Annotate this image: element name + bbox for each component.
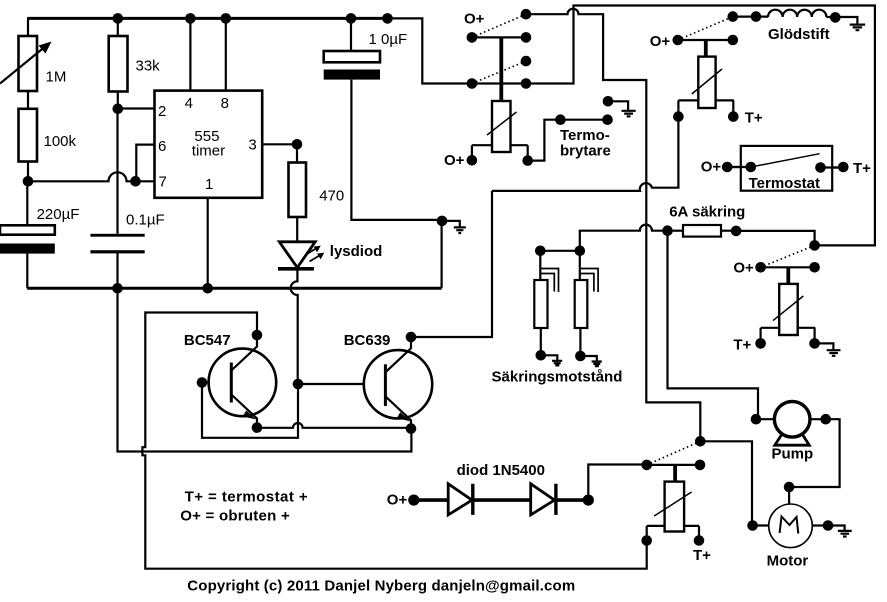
- svg-text:O+: O+: [733, 260, 754, 277]
- svg-text:Copyright (c) 2011 Danjel Nybe: Copyright (c) 2011 Danjel Nyberg danjeln…: [187, 578, 575, 595]
- svg-text:Motor: Motor: [767, 553, 809, 570]
- svg-text:T+: T+: [745, 110, 763, 127]
- svg-text:BC639: BC639: [344, 332, 391, 349]
- svg-text:O+: O+: [387, 492, 408, 509]
- svg-text:7: 7: [159, 173, 167, 190]
- svg-text:diod 1N5400: diod 1N5400: [457, 462, 545, 479]
- svg-text:1: 1: [205, 176, 213, 193]
- svg-text:1M: 1M: [46, 69, 67, 86]
- svg-text:timer: timer: [192, 143, 225, 160]
- svg-text:O+: O+: [444, 152, 465, 169]
- svg-text:T+: T+: [853, 160, 871, 177]
- svg-text:220µF: 220µF: [37, 206, 80, 223]
- svg-text:O+: O+: [701, 159, 722, 176]
- svg-text:O+: O+: [464, 11, 485, 28]
- svg-text:BC547: BC547: [184, 332, 231, 349]
- svg-text:470: 470: [319, 188, 344, 205]
- svg-text:2: 2: [158, 103, 166, 120]
- svg-text:Pump: Pump: [772, 446, 814, 463]
- svg-text:T+ = termostat +: T+ = termostat +: [185, 489, 309, 506]
- svg-text:8: 8: [221, 95, 229, 112]
- svg-text:1 0µF: 1 0µF: [369, 31, 408, 48]
- svg-text:0.1µF: 0.1µF: [126, 212, 165, 229]
- svg-text:brytare: brytare: [560, 142, 611, 159]
- svg-text:4: 4: [185, 95, 193, 112]
- svg-text:33k: 33k: [136, 58, 161, 75]
- svg-text:Säkringsmotstånd: Säkringsmotstånd: [492, 369, 623, 386]
- svg-text:lysdiod: lysdiod: [330, 243, 383, 260]
- svg-text:Termostat: Termostat: [749, 175, 820, 192]
- svg-text:3: 3: [248, 137, 256, 154]
- svg-text:O+ = obruten +: O+ = obruten +: [180, 508, 290, 525]
- svg-text:6: 6: [158, 138, 166, 155]
- svg-text:6A säkring: 6A säkring: [669, 204, 745, 221]
- svg-text:T+: T+: [693, 547, 711, 564]
- svg-text:Glödstift: Glödstift: [768, 26, 830, 43]
- svg-text:T+: T+: [733, 337, 751, 354]
- svg-text:100k: 100k: [44, 133, 77, 150]
- svg-text:O+: O+: [650, 33, 671, 50]
